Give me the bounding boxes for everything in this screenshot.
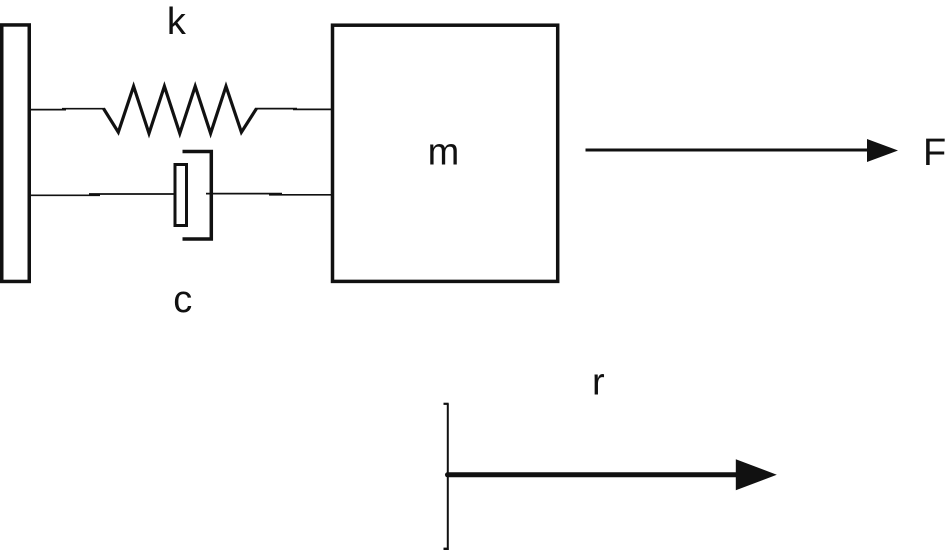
svg-text:r: r	[592, 361, 605, 403]
wire spring-left	[29, 109, 66, 111]
wire damper-left (piston rod)	[29, 194, 100, 196]
damper cylinder (cup)	[183, 152, 212, 240]
spring k zigzag	[104, 86, 257, 133]
svg-text:k: k	[167, 1, 187, 43]
damper piston plate	[175, 165, 187, 226]
axis top tick	[444, 403, 449, 405]
wire damper-right	[206, 193, 282, 195]
svg-text:c: c	[173, 279, 192, 321]
displacement arrow r shaft	[448, 472, 738, 477]
reference axis vertical line	[447, 404, 449, 550]
svg-text:F: F	[923, 132, 946, 174]
wire spring-right	[256, 108, 298, 110]
wall (fixed support)	[2, 25, 30, 282]
svg-text:m: m	[428, 132, 460, 174]
mass m block	[333, 25, 558, 281]
axis bottom tick	[444, 548, 449, 550]
force arrow F head	[867, 139, 898, 162]
displacement arrow r head	[736, 459, 777, 490]
force arrow F shaft	[586, 149, 870, 152]
